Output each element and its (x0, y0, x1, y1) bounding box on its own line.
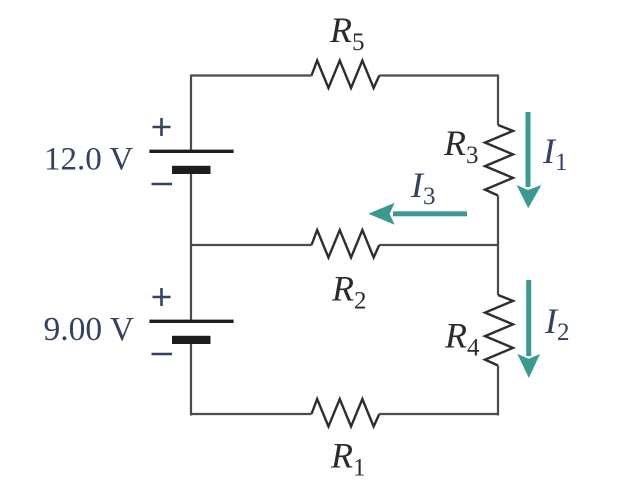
svg-text:I3: I3 (410, 165, 436, 210)
svg-text:I1: I1 (542, 131, 568, 176)
svg-text:R5: R5 (329, 10, 365, 56)
wire right lower (R4 down to bottom corner) (497, 366, 499, 416)
wire top from R5 to right corner (379, 74, 498, 76)
wire right from R3 to middle node (497, 196, 499, 246)
svg-text:R1: R1 (330, 436, 366, 482)
battery B2 long plate (+) (149, 320, 233, 323)
svg-text:R2: R2 (331, 269, 367, 315)
resistor R1 (312, 399, 380, 427)
svg-text:R3: R3 (443, 123, 479, 169)
battery B1 long plate (+) (149, 150, 233, 153)
battery B1 minus symbol (152, 183, 173, 186)
battery B1 plus symbol (153, 118, 171, 136)
svg-text:I2: I2 (544, 301, 570, 346)
wire right from middle node to R4 (497, 245, 499, 295)
battery B2 minus symbol (152, 353, 173, 356)
wire top from left corner to R5 (191, 74, 312, 76)
svg-text:9.00 V: 9.00 V (44, 311, 135, 348)
battery B2 short plate (-) (172, 336, 211, 344)
svg-text:R4: R4 (444, 316, 480, 362)
wire bottom from left corner to R1 (191, 413, 312, 415)
resistor R3 (485, 125, 513, 196)
resistor R4 (485, 295, 513, 366)
current arrow I1 (517, 112, 542, 208)
wire right upper (top corner down to R3) (497, 75, 499, 126)
battery B1 short plate (-) (172, 166, 211, 174)
wire left from middle node down to battery 2 (190, 245, 192, 320)
svg-text:12.0 V: 12.0 V (44, 142, 133, 178)
wire left from top corner down to battery 1 (190, 75, 192, 151)
current arrow I3 (368, 203, 467, 225)
wire middle from left wire to R2 (191, 244, 312, 246)
current arrow I2 (517, 280, 540, 378)
wire left from battery 2 down to bottom corner (190, 344, 192, 416)
wire bottom from R1 to right corner (379, 413, 498, 415)
wire middle from R2 to right wire (379, 244, 498, 246)
resistor R2 (312, 230, 380, 258)
battery B2 plus symbol (153, 288, 171, 306)
resistor R5 (312, 61, 380, 89)
wire left from battery 1 down to middle node (190, 174, 192, 245)
